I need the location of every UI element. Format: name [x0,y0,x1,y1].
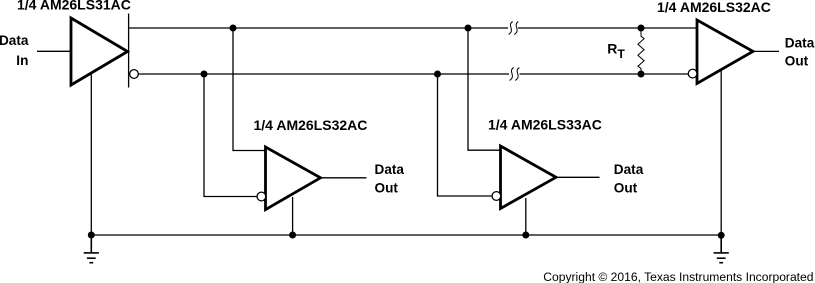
label "Data Out" (U2) [375,162,405,195]
svg-text:Out: Out [785,53,809,68]
line-break symbol pair on top line [509,22,519,35]
receiver U2 triangle [266,147,321,210]
driver U1 triangle (1/4 AM26LS31AC) [71,18,128,85]
wire: U2 ground drop [292,197,294,235]
junction dot rail x=292.6 [289,232,296,239]
ground symbol right [714,235,729,263]
wire: drop from bottom line to U2 inverting input [204,74,257,197]
svg-text:Copyright © 2016, Texas Instru: Copyright © 2016, Texas Instruments Inco… [543,270,813,283]
receiver U4 triangle [697,20,753,84]
wire: drop from top line to U2 non-inverting input [233,28,266,151]
junction dot RT bottom [638,71,645,78]
wire: U3 ground drop [525,198,527,235]
junction dot rail x=525.8 [522,232,529,239]
svg-text:Data: Data [614,162,644,177]
wire: U1 ground drop [90,73,92,235]
junction dot top line x=468 [465,25,472,32]
junction dot rail x=721.2 [718,232,725,239]
U4 inverting input bubble [688,69,697,78]
svg-text:1/4 AM26LS32AC: 1/4 AM26LS32AC [254,117,368,133]
U1 differential output bar [128,14,130,88]
junction dot bottom line x=204 [201,71,208,78]
wire: drop from top line to U3 non-inverting input [468,28,501,150]
junction dot rail x=91 [88,232,95,239]
wire: ground rail [91,234,721,236]
svg-text:Data: Data [0,33,29,48]
svg-text:Out: Out [375,180,399,195]
U3 inverting input bubble [492,192,501,201]
svg-text:In: In [16,53,28,68]
svg-text:Out: Out [614,180,638,195]
resistor RT zigzag [638,28,644,74]
svg-text:1/4 AM26LS33AC: 1/4 AM26LS33AC [488,116,602,132]
junction dot RT top [638,25,645,32]
ground symbol left [84,235,99,263]
label "Data Out" (U4) [785,35,815,68]
wire: U4 ground drop [720,70,722,236]
junction dot bottom line x=437.5 [434,71,441,78]
label "Data Out" (U3) [614,162,644,196]
svg-text:Data: Data [375,162,405,177]
U2 inverting input bubble [257,192,266,201]
wire: input to driver U1 [37,50,71,52]
svg-text:1/4 AM26LS31AC: 1/4 AM26LS31AC [17,0,131,12]
wire: drop from bottom line to U3 inverting input [438,74,493,196]
U1 inverting output bubble [130,70,139,79]
wire: U2 output [321,177,367,179]
label "Data In" [0,33,29,68]
receiver U3 triangle [501,146,557,209]
wire: U4 output [753,50,779,52]
wire: top differential line (right part) [518,27,697,29]
wire: bottom differential line (left part) [138,73,509,75]
wire: U3 output [556,176,600,178]
svg-text:1/4 AM26LS32AC: 1/4 AM26LS32AC [657,0,771,15]
junction dot top line x=233 [230,25,237,32]
wire: top differential line (left part) [129,27,508,29]
wire: bottom differential line (right part) [520,73,689,75]
svg-text:Data: Data [785,35,815,50]
line-break symbol pair on bottom line [510,68,520,81]
